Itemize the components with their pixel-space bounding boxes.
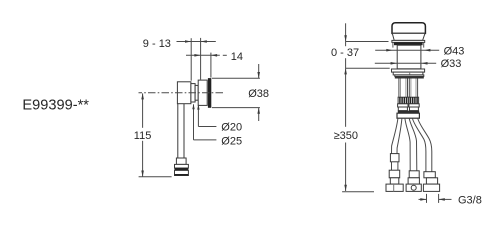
extension line 0-37 bottom <box>346 67 390 69</box>
threaded block right <box>409 97 419 104</box>
arrow 0-37 top <box>344 35 347 41</box>
G3/8 arrow line left <box>419 198 427 200</box>
hose left outer <box>392 118 398 153</box>
svg-text:9 - 13: 9 - 13 <box>143 38 171 50</box>
svg-text:Ø43: Ø43 <box>444 46 465 58</box>
push button housing <box>198 80 207 105</box>
connector step <box>176 158 186 164</box>
leader O25 horizontal <box>194 139 217 141</box>
extension line at 191 <box>190 38 192 80</box>
115 dim line upper <box>142 93 144 127</box>
0-37 dim line top <box>345 23 347 46</box>
svg-text:Ø25: Ø25 <box>221 135 242 147</box>
inlet pipe wall left <box>177 104 179 159</box>
valve main block <box>177 82 191 104</box>
dimension line 14 extra dash <box>223 54 227 56</box>
right column band2 <box>424 172 435 178</box>
svg-text:G3/8: G3/8 <box>458 195 482 207</box>
band row 2 left <box>398 107 407 111</box>
O43 dim line <box>375 49 439 51</box>
left column band2 <box>389 170 400 178</box>
band row 1 right <box>409 104 419 107</box>
escutcheon ring side right <box>423 42 425 47</box>
0-37 dim line mid <box>345 58 347 127</box>
arrow O43 left <box>386 49 392 52</box>
escutcheon ring side left <box>392 42 394 47</box>
arrow 14 right <box>211 54 217 57</box>
leader O25 vertical <box>193 104 195 139</box>
left column nut band <box>390 154 399 162</box>
arrow O25 <box>192 104 194 109</box>
pipe right right wall <box>417 79 419 98</box>
svg-text:≥350: ≥350 <box>334 130 358 142</box>
base plate dark band <box>395 76 424 78</box>
svg-text:Ø38: Ø38 <box>248 88 269 100</box>
arrow O43 right <box>424 49 430 52</box>
connector body <box>175 170 189 175</box>
arrow O20 <box>197 104 199 109</box>
base plate 2 <box>393 72 423 75</box>
svg-text:0 - 37: 0 - 37 <box>331 47 359 59</box>
hose right outer <box>418 118 432 172</box>
G3/8 tick right <box>438 194 440 203</box>
leader O20 vertical <box>197 105 199 127</box>
extension line at 211 <box>210 53 212 78</box>
hose middle right wall <box>409 118 417 171</box>
arrow 115 bottom <box>141 171 144 177</box>
wall flange dark bar <box>208 78 211 108</box>
valve neck ring 2 <box>195 85 198 100</box>
band row 2 right <box>410 107 419 111</box>
arrow 0-37 bottom / >=350 top <box>344 68 347 74</box>
extension line at 200 <box>200 38 202 80</box>
connector dark band <box>175 168 189 170</box>
valve neck ring 1 <box>191 84 195 102</box>
push button cap <box>392 23 425 34</box>
leader O20 horizontal <box>198 126 216 128</box>
right column block <box>423 184 439 191</box>
arrow 9-13 right <box>201 40 207 43</box>
arrow 14 left <box>194 54 200 57</box>
pipe left inner walls <box>400 79 402 98</box>
manifold band wide <box>397 113 419 118</box>
350 dim line lower <box>345 143 347 192</box>
dimension line 14 <box>186 54 220 56</box>
band row 1 left <box>398 104 408 107</box>
base plate 3 <box>395 75 424 77</box>
arrow G3/8 right <box>439 198 445 201</box>
connector bottom dark band <box>175 174 189 176</box>
middle column block <box>406 184 421 191</box>
center line left view <box>139 92 225 94</box>
pipe left right wall <box>407 79 409 98</box>
G3/8 tick left <box>426 194 428 203</box>
arrow 115 top <box>141 93 144 99</box>
hose middle left wall <box>405 118 410 171</box>
pipe left outer wall <box>398 79 400 98</box>
O38 dim line lower <box>258 108 260 121</box>
extension line 350 bottom <box>342 191 374 193</box>
extension line 115 bottom <box>139 176 172 178</box>
left block inner line <box>393 184 395 191</box>
extension line O38 top <box>212 77 260 79</box>
connector nut <box>175 164 189 168</box>
svg-text:Ø20: Ø20 <box>221 122 242 134</box>
pipe right inner walls <box>410 79 412 98</box>
arrow O38 bottom <box>257 108 260 114</box>
threaded block left <box>398 97 408 104</box>
arrow 350 bottom <box>344 185 347 191</box>
left column band3 <box>390 178 399 184</box>
svg-text:E99399-**: E99399-** <box>22 97 89 113</box>
middle column band2 <box>409 171 419 178</box>
arrow G3/8 left <box>420 198 426 201</box>
pipe right outer wall <box>408 79 410 98</box>
base plate 2 divider <box>409 72 411 75</box>
escutcheon lip <box>392 40 425 42</box>
middle column band3 <box>408 178 419 184</box>
arrow O33 right <box>421 62 427 65</box>
arrow O33 left <box>391 62 397 65</box>
extension line 0-37 top <box>346 41 389 43</box>
arrow 9-13 left <box>185 40 191 43</box>
svg-text:Ø33: Ø33 <box>441 58 462 70</box>
svg-text:14: 14 <box>231 51 243 63</box>
tapered collar <box>392 33 425 40</box>
O33 dim line <box>375 62 436 64</box>
dark band <box>398 111 419 114</box>
right column band3 <box>426 178 437 184</box>
hose left inner <box>397 118 402 153</box>
extension line O38 bottom <box>212 107 260 109</box>
left column block <box>386 184 403 191</box>
O38 dim line upper <box>258 64 260 78</box>
middle block circle <box>411 185 416 190</box>
hose right inner <box>412 118 426 172</box>
dimension line 9-13 <box>177 41 216 43</box>
base plate 1 <box>392 69 425 72</box>
flange dark band <box>394 42 423 45</box>
G3/8 arrow line right <box>439 198 452 200</box>
valve cylinder <box>397 45 421 69</box>
inlet pipe wall right <box>183 104 185 159</box>
arrow O38 top <box>257 72 260 78</box>
115 dim line lower <box>142 141 144 177</box>
svg-text:115: 115 <box>134 130 152 142</box>
left column pipe <box>391 162 393 170</box>
